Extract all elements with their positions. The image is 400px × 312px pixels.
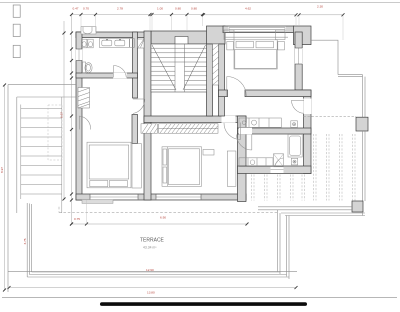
window: bedroom 4 north glazing gap xyxy=(228,27,286,32)
fixture: bathroom 3 wc xyxy=(291,121,298,128)
door arc: bedroom 2 entry xyxy=(133,99,145,114)
fixture: bathroom 4 wc xyxy=(291,158,297,165)
pergola east edge xyxy=(363,131,366,201)
window: bedroom 4 north glazing xyxy=(224,28,288,40)
furniture: bedroom 3 bed xyxy=(162,147,202,187)
dim line top row 2.30 xyxy=(298,13,345,40)
legend box 2 xyxy=(13,24,20,36)
pergola slats right field xyxy=(314,134,356,201)
wall: top header over shaft x207-225 xyxy=(207,26,226,44)
dashed line terrace/pergola divider xyxy=(304,115,357,117)
window: bedroom 3 south xyxy=(156,194,201,199)
fixture: bathroom 4 shower xyxy=(274,154,284,167)
furniture: bedroom 4 nightstand left xyxy=(227,42,234,50)
door opening: bathroom 3 terrace door gap xyxy=(303,99,311,115)
door arc: bedroom 3 door xyxy=(224,123,241,140)
svg-text:0.80: 0.80 xyxy=(175,6,181,10)
pergola slats lower field xyxy=(252,175,305,201)
svg-text:12.90: 12.90 xyxy=(146,268,154,272)
furniture: bedroom 2 side cabinet xyxy=(132,144,141,189)
wall: V6 bedroom4 west xyxy=(219,44,225,116)
dashed planter rectangle xyxy=(48,105,62,160)
furniture: bedroom 3 cabinet xyxy=(227,151,236,186)
svg-text:6.90: 6.90 xyxy=(160,216,166,220)
wall: stair header block xyxy=(151,31,208,44)
svg-text:2.78: 2.78 xyxy=(117,6,123,10)
dim line top row 4.62 xyxy=(202,13,298,26)
stair void notch xyxy=(175,37,188,45)
hatch: duct beside bathroom 2 xyxy=(138,39,145,48)
fixture: bathroom 4 vanity row xyxy=(239,158,273,167)
bottom terrace south boundary xyxy=(27,272,289,277)
fixture: bathroom 2 toilet oval lower-left xyxy=(83,62,93,73)
legend box 3 xyxy=(13,45,20,57)
window: bedroom 4 east xyxy=(295,48,303,64)
wall: interior V1/V4 stairs-bedrooms divider xyxy=(144,31,151,200)
hatch: wardrobe shaft right of stairs xyxy=(213,44,219,85)
dim line top row west xyxy=(70,13,152,224)
scale bar xyxy=(100,302,307,306)
wall: NE corner block xyxy=(294,26,312,45)
fixture: bathroom2 niche basin above wall xyxy=(81,27,96,34)
terrace step lines below pergola xyxy=(281,212,365,216)
svg-text:8.97: 8.97 xyxy=(0,167,4,173)
furniture: bedroom 4 nightstand right xyxy=(278,42,285,50)
hatch: closet west bedroom 2 xyxy=(78,88,90,109)
svg-text:1.00: 1.00 xyxy=(157,6,163,10)
terrace NE outline step xyxy=(311,40,365,117)
site west boundary lines xyxy=(8,85,76,292)
wall stub: SW threshold xyxy=(82,200,113,204)
legend box 1 xyxy=(13,5,20,17)
wall: V5 stairs east xyxy=(207,44,213,116)
fixture: bathroom 2 vanity xyxy=(99,39,129,48)
dim line top row mid xyxy=(151,13,205,31)
window: bedroom 2 south xyxy=(90,194,138,199)
door gap: bedroom 3 door xyxy=(222,116,236,123)
wall: top wall west segment (bathroom 2 / stairs) xyxy=(76,32,151,38)
svg-text:0.80: 0.80 xyxy=(191,6,197,10)
door arc: bathroom 4 door xyxy=(237,135,252,151)
door arc: bathroom 2 xyxy=(114,65,127,77)
svg-text:0.75: 0.75 xyxy=(74,217,80,221)
window: bathroom 4 south xyxy=(271,167,284,174)
wall: left (west) wall xyxy=(76,32,82,200)
dashed line terrace upper xyxy=(59,207,290,213)
svg-text:0.47: 0.47 xyxy=(73,6,79,10)
door gap: bathroom 4 door xyxy=(239,128,252,135)
fixture: bathroom 2 wc pair top-left xyxy=(82,39,94,48)
pillar: pergola SW corner xyxy=(352,201,363,212)
door gap: bathroom 2 door xyxy=(113,73,127,79)
furniture: bedroom 3 dresser small xyxy=(203,150,214,156)
hatch: corridor closet west block xyxy=(141,124,158,133)
door arc: bedroom 2 closet door xyxy=(79,116,90,130)
svg-text:43.34 m²: 43.34 m² xyxy=(143,246,157,250)
wall: interior V3 bathroom2 east xyxy=(133,32,138,98)
wall: top wall east segment (bedroom 4) xyxy=(223,26,294,33)
wall: bedroom2 east wall lower part xyxy=(132,115,138,144)
svg-text:13.80: 13.80 xyxy=(147,290,155,294)
pillar: terrace SE xyxy=(356,117,368,131)
site boundary bottom line xyxy=(2,296,397,298)
wall: H5 west stub xyxy=(219,90,228,97)
wall: H1 corridor south xyxy=(144,116,246,122)
wall: east wall bathrooms (x303.5-311) xyxy=(304,90,312,174)
dim vline site 8.97 xyxy=(3,84,6,292)
wall: east wall bedroom 4 (x295-302) xyxy=(295,32,302,90)
svg-text:2.30: 2.30 xyxy=(317,4,323,8)
svg-text:3.75: 3.75 xyxy=(23,238,27,244)
door arc: bedroom 4 door xyxy=(227,77,247,97)
wall: H5 bedroom 4 south xyxy=(245,90,311,97)
wall: bathroom 4 south wall xyxy=(238,166,312,174)
top border line xyxy=(0,1,400,3)
exterior stair ladder west xyxy=(21,97,62,213)
svg-text:4.62: 4.62 xyxy=(245,6,251,10)
terrace east step verticals xyxy=(278,210,290,279)
window: west wall bathroom 2 xyxy=(76,49,83,61)
furniture: bedroom 4 bed xyxy=(234,40,277,69)
fixture: bathroom 4 bathtub xyxy=(288,134,302,157)
site line outer bottom-left xyxy=(8,271,297,273)
left wall tick set xyxy=(70,32,73,226)
door arc: bathroom 3 terrace door xyxy=(292,100,305,113)
wall: V2 bathrooms west xyxy=(238,116,247,202)
pergola south edge xyxy=(258,207,352,210)
svg-text:6.97: 6.97 xyxy=(60,112,64,118)
wall: H3 bathroom 2 south xyxy=(76,73,138,78)
dim line 13.80 xyxy=(8,286,298,289)
bottom terrace west boundary xyxy=(27,203,31,277)
wall: south wall of bedrooms xyxy=(76,194,246,200)
wall: H2 bathroom3/bathroom4 divider xyxy=(238,128,312,134)
furniture: bedroom 2 bed xyxy=(87,142,131,188)
dim row 0.75 / 6.90 xyxy=(70,200,249,226)
svg-text:TERRACE: TERRACE xyxy=(140,238,165,244)
fixture: bathroom 2 corner unit xyxy=(130,39,135,48)
fixture: bathroom 3 vanity row xyxy=(239,118,281,127)
stairs U-flight xyxy=(151,44,207,92)
dim vline left inner xyxy=(63,21,66,201)
svg-text:0.70: 0.70 xyxy=(83,6,89,10)
hatch: corridor wardrobe long xyxy=(159,124,219,133)
